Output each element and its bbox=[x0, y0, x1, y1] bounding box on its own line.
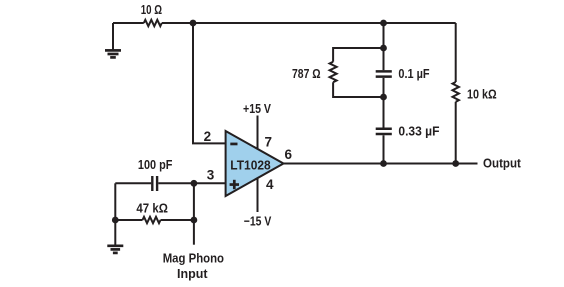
ground (top-left) bbox=[105, 50, 121, 57]
wire mid branch lower bbox=[383, 135, 385, 163]
wire pin 3 right segment bbox=[158, 182, 225, 184]
wire mid branch between caps bbox=[383, 78, 385, 128]
wire mid branch upper bbox=[383, 23, 385, 70]
svg-text:Input: Input bbox=[177, 266, 208, 281]
resistor R 10 ohm bbox=[144, 20, 162, 26]
wire pin 3 left segment bbox=[115, 182, 151, 184]
svg-text:10 Ω: 10 Ω bbox=[141, 2, 162, 17]
svg-text:10 kΩ: 10 kΩ bbox=[467, 86, 497, 101]
node B junction top rail / mid branch bbox=[380, 20, 387, 27]
wire 47k left segment bbox=[115, 219, 142, 221]
capacitor C 0.33uF bbox=[376, 129, 392, 134]
wire pin 4 supply bbox=[257, 176, 259, 212]
svg-text:47 kΩ: 47 kΩ bbox=[136, 200, 168, 215]
svg-text:2: 2 bbox=[204, 129, 212, 144]
node F junction output / right branch bbox=[452, 160, 459, 167]
svg-text:100 pF: 100 pF bbox=[138, 157, 173, 172]
node C junction parallel loop top bbox=[380, 45, 387, 52]
node I junction 47k right bbox=[191, 217, 198, 224]
node G junction pin3 / input bbox=[191, 180, 198, 187]
capacitor C 100pF bbox=[152, 176, 157, 191]
svg-text:LT1028: LT1028 bbox=[230, 157, 270, 172]
svg-text:7: 7 bbox=[265, 135, 273, 150]
node D junction parallel loop bottom bbox=[380, 94, 387, 101]
svg-text:787 Ω: 787 Ω bbox=[292, 66, 321, 81]
op-amp U1 LT1028 bbox=[226, 131, 284, 196]
op-amp minus sign bbox=[230, 143, 237, 146]
ground (bottom-left) bbox=[107, 246, 123, 253]
wire parallel loop top bbox=[333, 48, 383, 62]
resistor R 787 ohm bbox=[330, 62, 337, 82]
svg-text:3: 3 bbox=[207, 168, 215, 183]
svg-text:0.1 µF: 0.1 µF bbox=[398, 66, 429, 81]
op-amp plus sign bbox=[230, 183, 239, 186]
wire feedback drop to pin 2 bbox=[193, 23, 226, 143]
node A junction top rail / feedback bbox=[190, 20, 197, 27]
svg-text:4: 4 bbox=[266, 177, 274, 192]
wire mag phono input vertical bbox=[193, 183, 195, 244]
node H junction 47k left bbox=[112, 217, 119, 224]
wire right branch upper bbox=[455, 23, 457, 82]
wire right branch lower bbox=[455, 102, 457, 164]
wire top rail left segment bbox=[113, 22, 144, 24]
svg-text:+15 V: +15 V bbox=[243, 101, 271, 116]
wire parallel loop bottom bbox=[333, 82, 383, 97]
wire 47k right segment bbox=[161, 219, 194, 221]
resistor R 10k bbox=[453, 82, 459, 102]
svg-text:Mag Phono: Mag Phono bbox=[163, 250, 224, 265]
wire output rail bbox=[284, 163, 478, 165]
svg-text:−15 V: −15 V bbox=[244, 213, 272, 228]
resistor R 47k bbox=[143, 217, 161, 223]
wire ground stem top-left bbox=[112, 23, 114, 50]
node E junction output / mid branch bbox=[380, 160, 387, 167]
capacitor C 0.1uF bbox=[376, 71, 392, 76]
svg-text:0.33 µF: 0.33 µF bbox=[398, 123, 439, 138]
svg-text:6: 6 bbox=[284, 147, 292, 162]
svg-text:Output: Output bbox=[483, 156, 521, 171]
wire pin 7 supply bbox=[257, 116, 259, 151]
wire top rail right segment bbox=[162, 22, 456, 24]
wire input network left vertical bbox=[114, 183, 116, 245]
